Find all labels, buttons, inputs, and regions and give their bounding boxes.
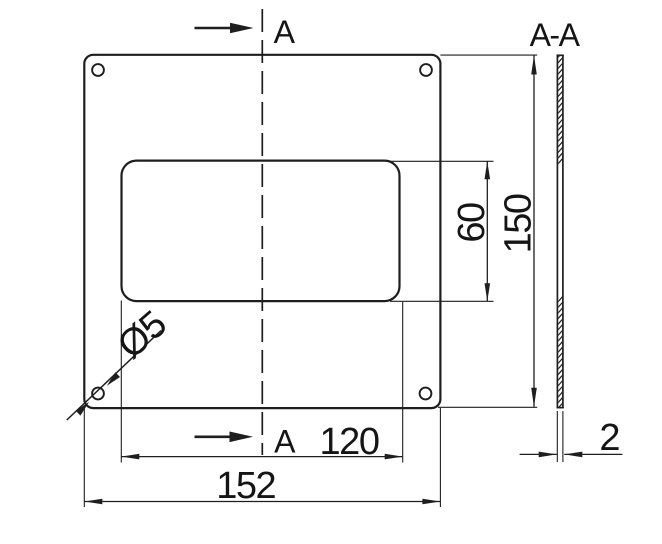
svg-text:A-A: A-A	[530, 17, 581, 53]
svg-text:150: 150	[498, 194, 540, 253]
svg-text:60: 60	[451, 203, 493, 243]
svg-text:120: 120	[320, 421, 379, 463]
svg-text:A: A	[274, 14, 296, 50]
svg-text:152: 152	[216, 465, 275, 507]
svg-text:2: 2	[599, 417, 620, 459]
svg-text:A: A	[274, 423, 296, 459]
